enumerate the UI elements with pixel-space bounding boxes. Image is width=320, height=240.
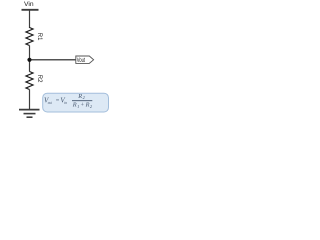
label R1 xyxy=(36,33,42,41)
svg-text:1: 1 xyxy=(77,104,79,109)
svg-text:Vout: Vout xyxy=(77,58,86,64)
resistor R1 xyxy=(26,28,33,46)
svg-text:R: R xyxy=(72,102,77,109)
net flag Vout xyxy=(76,56,94,64)
svg-text:R2: R2 xyxy=(36,75,42,83)
svg-text:R: R xyxy=(85,102,90,109)
svg-text:+: + xyxy=(80,102,84,108)
wire R2 to ground xyxy=(29,90,31,110)
ground xyxy=(19,110,40,118)
wire Vin to R1 xyxy=(29,10,31,28)
svg-text:=: = xyxy=(55,97,59,104)
svg-text:R1: R1 xyxy=(36,33,42,41)
net label Vin xyxy=(24,1,34,8)
wire R1 to R2 xyxy=(29,46,31,72)
svg-text:out: out xyxy=(48,100,52,105)
wire junction to Vout flag xyxy=(30,59,77,61)
junction node Vout xyxy=(27,58,31,62)
terminal bar Vin xyxy=(22,9,39,11)
formula box xyxy=(43,93,109,112)
resistor R2 xyxy=(26,72,33,90)
svg-text:R: R xyxy=(77,93,82,100)
formula Vout = Vin * R2/(R1+R2) xyxy=(44,93,93,109)
label R2 xyxy=(36,75,42,83)
svg-text:Vin: Vin xyxy=(24,1,34,8)
